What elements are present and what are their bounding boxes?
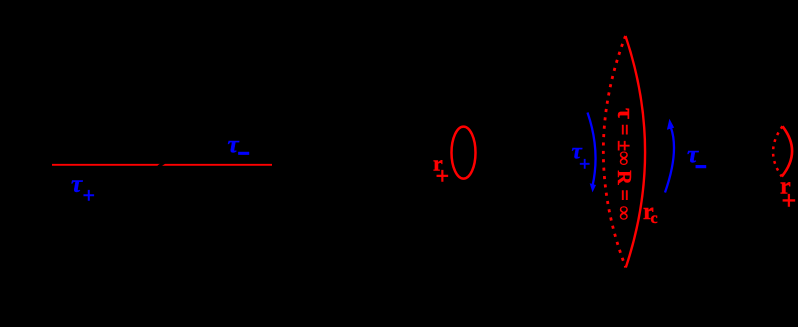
node r_plus label (far right, red) xyxy=(780,173,796,215)
node tau_minus label (left panel, blue) xyxy=(228,132,250,159)
svg-text:+: + xyxy=(83,183,96,208)
svg-text:+: + xyxy=(782,186,797,215)
wire: red horizontal worldline left panel xyxy=(52,164,272,166)
svg-text:+: + xyxy=(579,154,590,176)
svg-text:τ = ±∞ R = ∞: τ = ±∞ R = ∞ xyxy=(612,108,638,220)
svg-text:c: c xyxy=(651,210,658,227)
wire: black break slash on worldline xyxy=(158,163,164,167)
svg-text:τ: τ xyxy=(71,171,83,198)
node tau_plus label (lens left, blue) xyxy=(572,139,591,176)
wire: left blue arrow arc xyxy=(588,113,596,187)
node r_plus label (middle, red) xyxy=(433,150,449,190)
node big lens solid right edge (r_c surface) xyxy=(626,36,646,268)
node tau_minus label (lens right, blue) xyxy=(687,141,706,168)
node r_c label (red) xyxy=(643,199,658,227)
node tau_plus label (left panel, blue) xyxy=(71,171,95,207)
svg-text:τ: τ xyxy=(228,132,240,159)
wire: right blue arrow arc xyxy=(665,125,674,193)
node left blue arrowhead xyxy=(590,183,596,192)
node mini lens solid right edge (far right) xyxy=(782,126,792,176)
svg-text:τ: τ xyxy=(687,141,699,168)
node mini lens dotted left edge (far right) xyxy=(773,126,782,176)
node big lens dotted left edge (r=infinity surface) xyxy=(603,36,625,268)
svg-text:+: + xyxy=(436,164,450,190)
node r_plus horizon ellipse (middle, red) xyxy=(452,127,476,179)
node right blue arrowhead xyxy=(667,119,674,130)
